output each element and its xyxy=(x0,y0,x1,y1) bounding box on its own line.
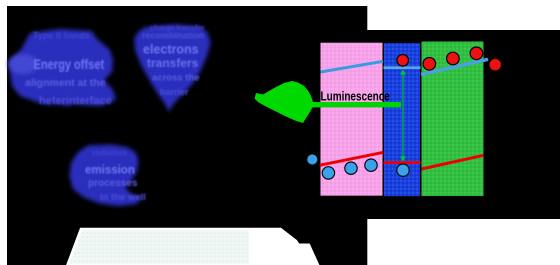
svg-text:across the: across the xyxy=(152,73,200,84)
svg-text:radiative: radiative xyxy=(92,148,127,158)
svg-text:in the well: in the well xyxy=(100,192,146,203)
svg-text:heterinterface: heterinterface xyxy=(39,95,112,107)
svg-text:electrons: electrons xyxy=(143,43,199,57)
svg-text:recombination: recombination xyxy=(142,31,204,41)
svg-text:alignment at the: alignment at the xyxy=(25,77,106,89)
svg-text:Type II bands: Type II bands xyxy=(33,31,90,41)
svg-text:emission: emission xyxy=(85,165,135,177)
svg-text:processes: processes xyxy=(88,178,138,189)
svg-text:transfers: transfers xyxy=(147,56,199,70)
svg-text:Luminescence: Luminescence xyxy=(321,91,390,104)
svg-text:Energy offset: Energy offset xyxy=(34,57,105,72)
svg-text:barrier: barrier xyxy=(160,87,189,97)
